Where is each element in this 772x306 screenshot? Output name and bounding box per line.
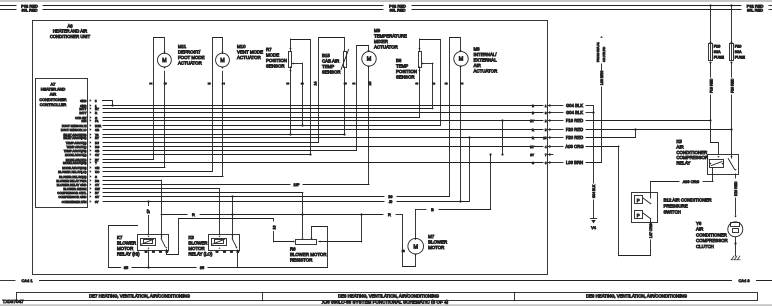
junction: rail tap xyxy=(147,266,149,268)
junction: K6 switch feed on row xyxy=(231,195,233,197)
wire: K7 output jog to resistor (line B) xyxy=(167,219,295,255)
junction: F19 RED tap xyxy=(709,119,711,121)
svg-text:9: 9 xyxy=(301,82,305,84)
svg-text:FROM SEA A1: FROM SEA A1 xyxy=(596,42,600,62)
svg-text:85: 85 xyxy=(124,266,128,270)
svg-text:CONDITIONER: CONDITIONER xyxy=(696,232,727,237)
svg-text:MIXER: MIXER xyxy=(374,39,388,44)
svg-text:PRESSURE: PRESSURE xyxy=(664,204,688,209)
junction: bus tap for fuse F19 xyxy=(709,4,711,6)
svg-text:L06 BRN: L06 BRN xyxy=(566,160,583,165)
svg-text:CONDITIONER: CONDITIONER xyxy=(676,150,707,155)
svg-text:8: 8 xyxy=(344,82,348,84)
svg-text:J9: J9 xyxy=(389,200,393,204)
svg-text:GND: GND xyxy=(80,99,86,103)
wire: M7 top feed line B xyxy=(416,155,491,212)
resistor R6 blower motor resistor xyxy=(290,214,362,263)
svg-text:CV: CV xyxy=(95,153,99,157)
junction: line R taps xyxy=(231,213,233,215)
wire: K6 switch feed xyxy=(232,197,234,234)
svg-text:CA4 3: CA4 3 xyxy=(738,278,750,283)
svg-text:G04 BLK: G04 BLK xyxy=(566,110,583,115)
svg-text:B9: B9 xyxy=(388,195,392,199)
relay K7 blower motor relay (HI) xyxy=(117,234,169,256)
svg-text:L06 BRN: L06 BRN xyxy=(600,70,604,85)
junction: M7 feed tap xyxy=(489,153,491,155)
svg-text:DE9 HEATING, VENTILATION, AIR/: DE9 HEATING, VENTILATION, AIR/CONDITIONI… xyxy=(586,294,687,299)
svg-text:L07 ORG: L07 ORG xyxy=(649,223,653,238)
svg-text:Y: Y xyxy=(95,161,97,165)
svg-text:G04 BLK: G04 BLK xyxy=(566,103,583,108)
svg-text:M: M xyxy=(413,244,418,250)
svg-text:SWITCH: SWITCH xyxy=(664,210,681,215)
svg-text:F20 RED: F20 RED xyxy=(566,135,583,140)
svg-text:M9: M9 xyxy=(374,28,381,33)
svg-text:RESISTOR: RESISTOR xyxy=(290,258,312,263)
svg-text:R: R xyxy=(532,136,534,140)
sensor B8 temp position sensor (potentiometer) xyxy=(396,39,441,125)
svg-text:DE7 HEATING, VENTILATION, AIR/: DE7 HEATING, VENTILATION, AIR/CONDITIONI… xyxy=(89,294,190,299)
junction: K7 coil feed on row xyxy=(147,200,149,202)
svg-text:2: 2 xyxy=(352,82,356,84)
svg-text:K7: K7 xyxy=(117,235,123,240)
wire: pin 7 stub xyxy=(548,154,553,156)
svg-text:5: 5 xyxy=(445,82,449,84)
svg-text:F19: F19 xyxy=(714,45,721,49)
svg-text:30A: 30A xyxy=(714,50,721,54)
svg-text:R: R xyxy=(192,212,195,217)
wire: L06 BRN up to off-page (from SEA A1) xyxy=(596,36,606,162)
wire: F20 RED pin 15 loop xyxy=(548,137,563,139)
svg-text:POSITION: POSITION xyxy=(396,69,417,74)
wire: power bus 86L RED (second) xyxy=(0,8,772,13)
svg-text:RY: RY xyxy=(530,145,534,149)
svg-text:POSITION: POSITION xyxy=(266,58,287,63)
svg-text:TEMP: TEMP xyxy=(396,64,408,69)
svg-text:R: R xyxy=(95,111,97,115)
svg-text:MODE A/ACT(FB): MODE A/ACT(FB) xyxy=(63,161,86,165)
svg-text:B15: B15 xyxy=(322,53,330,58)
svg-text:DUCT SENSOR LO: DUCT SENSOR LO xyxy=(61,128,87,132)
svg-text:EXTERNAL: EXTERNAL xyxy=(474,58,498,63)
sensor B15 cab air temperature sensor (thermistor) xyxy=(314,38,349,143)
wire: G04 BLK pin 8 xyxy=(548,112,563,114)
junction: F20 RED taps xyxy=(730,128,732,130)
junction dots stitch 469 xyxy=(468,136,470,138)
svg-text:M11: M11 xyxy=(178,44,187,49)
svg-text:M: M xyxy=(367,57,372,63)
svg-text:F19 RED: F19 RED xyxy=(566,118,583,123)
junction: G04 BLK join xyxy=(592,111,594,113)
svg-text:15: 15 xyxy=(543,136,547,140)
wire: A06 ORG down and around to pressure switch xyxy=(619,146,654,256)
wire: line R (relay outputs to blower motor) xyxy=(161,212,402,217)
svg-text:BLOWER: BLOWER xyxy=(188,241,207,246)
svg-text:CAB AIR: CAB AIR xyxy=(322,59,339,64)
svg-text:ACTUATOR: ACTUATOR xyxy=(178,61,202,66)
svg-text:GY: GY xyxy=(95,195,99,199)
svg-text:AIR: AIR xyxy=(696,227,703,232)
svg-text:16: 16 xyxy=(368,82,372,86)
wire: A7 fan-out rows xyxy=(103,101,544,205)
svg-text:F20 RED: F20 RED xyxy=(730,78,734,93)
svg-text:86L RED: 86L RED xyxy=(747,8,763,13)
svg-text:XJ6 330LC-88 SYSTEM FUNCTIONAL: XJ6 330LC-88 SYSTEM FUNCTIONAL SCHEMATIC… xyxy=(322,299,449,304)
svg-text:B: B xyxy=(532,111,534,115)
svg-text:RELAY: RELAY xyxy=(676,161,690,166)
svg-text:BLOWER RELAY(LO): BLOWER RELAY(LO) xyxy=(58,170,86,174)
relay K6 blower motor relay (LO) xyxy=(188,234,240,256)
svg-text:BY: BY xyxy=(530,153,534,157)
wire: K7 coil to rail xyxy=(148,250,150,268)
svg-text:COMPRESSOR: COMPRESSOR xyxy=(676,155,708,160)
svg-text:R: R xyxy=(388,212,391,217)
svg-text:FUSE: FUSE xyxy=(735,55,746,59)
svg-text:V4: V4 xyxy=(591,225,597,230)
svg-text:VENT MODE: VENT MODE xyxy=(237,50,263,55)
svg-text:COMPRESSOR GND: COMPRESSOR GND xyxy=(58,195,86,199)
controller A7 heater and air conditioner controller xyxy=(36,79,88,208)
wire: bottom bus CA4 xyxy=(0,278,772,283)
clutch Y6 air conditioner compressor clutch xyxy=(696,174,743,249)
svg-text:RELAY (LO): RELAY (LO) xyxy=(188,252,213,257)
svg-text:Y6: Y6 xyxy=(696,221,702,226)
wire: F20 RED feed pin 5 xyxy=(548,129,563,131)
wire: F19 jog to relay coil top xyxy=(711,121,719,155)
actuator M8 internal/external air actuator xyxy=(445,38,498,202)
ground V4 xyxy=(590,106,596,230)
svg-text:86L RED: 86L RED xyxy=(389,8,405,13)
wire: common rail under relays xyxy=(109,226,328,271)
wire: stitch vertical x=469 xyxy=(469,138,471,202)
svg-text:R6: R6 xyxy=(290,247,296,252)
svg-text:R: R xyxy=(532,128,534,132)
svg-text:CLUTCH: CLUTCH xyxy=(696,244,714,249)
svg-text:MOTOR: MOTOR xyxy=(188,246,204,251)
svg-text:RELAY (HI): RELAY (HI) xyxy=(117,252,140,257)
svg-text:CONTROLLER: CONTROLLER xyxy=(40,102,67,107)
svg-text:16: 16 xyxy=(272,226,276,230)
svg-text:FOOT MODE: FOOT MODE xyxy=(178,55,205,60)
A7 controller pin names, pin arrows and wire codes xyxy=(56,99,101,204)
svg-text:BLOWER MOTOR: BLOWER MOTOR xyxy=(290,252,327,257)
svg-text:GB: GB xyxy=(95,128,99,132)
junction: bus tap for fuse F20 xyxy=(730,4,732,6)
svg-text:ACTUATOR: ACTUATOR xyxy=(374,45,398,50)
svg-text:M: M xyxy=(220,58,225,64)
ground below Y6 clutch (off-page chassis) xyxy=(731,256,740,260)
wire: K6 coil feed xyxy=(219,189,221,235)
svg-text:8Y: 8Y xyxy=(95,200,99,204)
svg-text:B: B xyxy=(431,207,434,212)
svg-text:P1: P1 xyxy=(95,119,99,123)
junction: R7 wires on rows xyxy=(289,133,291,135)
svg-text:2: 2 xyxy=(222,82,226,84)
footer title block xyxy=(3,292,758,304)
svg-text:SENSOR: SENSOR xyxy=(322,70,341,75)
svg-text:13P: 13P xyxy=(293,183,300,187)
svg-text:G: G xyxy=(532,161,534,165)
wire: K6 switch output to rail xyxy=(237,250,239,268)
svg-text:F19 RED: F19 RED xyxy=(709,78,713,93)
svg-text:MOTOR: MOTOR xyxy=(117,246,133,251)
svg-text:2: 2 xyxy=(149,82,153,84)
junction: GND rows joined xyxy=(111,104,113,106)
junction: clutch ground wire xyxy=(734,242,736,244)
junction: B15 wire on row xyxy=(343,133,345,135)
svg-text:ACTUATOR: ACTUATOR xyxy=(474,69,498,74)
sensor R7 mode position sensor (potentiometer) xyxy=(266,39,311,154)
svg-text:CA4 1: CA4 1 xyxy=(21,278,33,283)
svg-text:M7: M7 xyxy=(428,234,435,239)
decorative bottom gray strip xyxy=(0,304,772,306)
svg-text:RY: RY xyxy=(95,136,99,140)
A6 box right edge pin arrows, pin numbers and wire codes xyxy=(530,104,551,165)
svg-text:F20 RED: F20 RED xyxy=(566,127,583,132)
svg-text:86L RED: 86L RED xyxy=(21,8,37,13)
svg-text:RY: RY xyxy=(530,119,534,123)
svg-text:AIR: AIR xyxy=(676,144,683,149)
fuse F20 30A xyxy=(730,6,746,155)
svg-text:SENSOR: SENSOR xyxy=(266,64,285,69)
svg-text:BLOWER: BLOWER xyxy=(428,240,447,245)
svg-text:TEMPERATURE: TEMPERATURE xyxy=(374,34,407,39)
svg-text:TEMP: TEMP xyxy=(322,64,334,69)
svg-text:INTERNAL/: INTERNAL/ xyxy=(474,52,498,57)
svg-text:CONDITIONER UNIT: CONDITIONER UNIT xyxy=(50,34,91,39)
svg-text:5: 5 xyxy=(208,82,212,84)
actuator M11 defrost/foot mode actuator xyxy=(149,38,204,168)
svg-text:MODE A/ACT(+): MODE A/ACT(+) xyxy=(65,153,86,157)
actuator M10 vent mode actuator xyxy=(208,38,263,177)
wire: A06 ORG pin 4 xyxy=(548,146,563,148)
fuse F19 30A xyxy=(709,6,725,122)
svg-text:MOTOR: MOTOR xyxy=(428,245,444,250)
svg-text:B: B xyxy=(532,104,534,108)
svg-text:BATT: BATT xyxy=(79,111,86,115)
svg-text:F20: F20 xyxy=(735,45,742,49)
svg-text:M8: M8 xyxy=(474,47,481,52)
wire: A06 ORG pressure switch to relay coil xyxy=(651,174,714,192)
svg-text:M: M xyxy=(459,57,464,63)
wire: stitch vertical x=502 xyxy=(502,121,504,155)
svg-text:TX037047: TX037047 xyxy=(3,299,25,304)
svg-text:A06 ORG: A06 ORG xyxy=(565,144,583,149)
svg-text:B12 AIR CONDITIONER: B12 AIR CONDITIONER xyxy=(664,198,712,203)
svg-text:R7: R7 xyxy=(266,47,272,52)
svg-text:8: 8 xyxy=(286,82,290,84)
relay K5 air conditioner compressor relay xyxy=(676,139,738,175)
wire: L06 BRN pin 6 xyxy=(548,162,563,164)
svg-text:CONDENSER FAN: CONDENSER FAN xyxy=(62,200,87,204)
wire: G04 BLK pin 1 to ground vertical xyxy=(548,105,563,107)
svg-text:SENSOR: SENSOR xyxy=(396,75,415,80)
actuator M9 temperature mixer motor actuator xyxy=(352,28,407,184)
blower motor M7 xyxy=(402,210,448,267)
svg-text:8: 8 xyxy=(163,82,167,84)
svg-text:P: P xyxy=(637,213,640,218)
svg-text:COMPRESSOR: COMPRESSOR xyxy=(696,238,728,243)
junction dots stitch 502 xyxy=(501,119,503,121)
svg-text:14: 14 xyxy=(314,82,318,86)
svg-text:P: P xyxy=(637,198,640,203)
wire: clutch to ground xyxy=(735,237,737,256)
svg-text:DEFROST/: DEFROST/ xyxy=(178,50,201,55)
svg-text:B8: B8 xyxy=(396,58,402,63)
pressure switch B12 air conditioner pressure switch xyxy=(632,192,712,223)
svg-text:MODE: MODE xyxy=(266,53,279,58)
svg-text:M: M xyxy=(162,58,167,64)
wire: F19 RED feed xyxy=(548,120,563,122)
svg-text:2: 2 xyxy=(460,82,464,84)
svg-text:9: 9 xyxy=(432,82,436,84)
svg-text:K10 RED: K10 RED xyxy=(734,181,738,196)
svg-text:IGN: IGN xyxy=(81,119,86,123)
svg-text:K6: K6 xyxy=(188,235,194,240)
decorative top gray strip xyxy=(0,0,772,2)
svg-text:AIR: AIR xyxy=(474,63,481,68)
svg-text:30A: 30A xyxy=(735,50,742,54)
svg-text:A06 ORG: A06 ORG xyxy=(683,180,700,184)
svg-text:INLET A/ACT(PK): INLET A/ACT(PK) xyxy=(63,136,86,140)
svg-text:DE8 HEATING, VENTILATION, AIR/: DE8 HEATING, VENTILATION, AIR/CONDITIONI… xyxy=(338,294,439,299)
svg-text:BLOWER: BLOWER xyxy=(117,241,136,246)
svg-text:M10: M10 xyxy=(237,44,246,49)
svg-text:UO: UO xyxy=(95,170,100,174)
wire: K7 coil feed 1P xyxy=(147,201,151,234)
svg-text:K5: K5 xyxy=(676,139,682,144)
box A6 heater and air conditioner unit xyxy=(33,21,548,275)
wire: K7 switch feed xyxy=(161,180,163,234)
svg-text:8: 8 xyxy=(415,82,419,84)
svg-text:85: 85 xyxy=(200,266,204,270)
svg-text:FUSE: FUSE xyxy=(714,55,725,59)
wire: R6 top-left feed from controller row xyxy=(302,193,304,214)
svg-text:ACTUATOR: ACTUATOR xyxy=(237,55,261,60)
svg-text:1P: 1P xyxy=(147,209,151,214)
svg-text:G04 BLK: G04 BLK xyxy=(592,184,596,198)
wire: power bus P62 RED (top) xyxy=(0,3,772,8)
svg-text:OR PIN FD: OR PIN FD xyxy=(602,46,606,62)
